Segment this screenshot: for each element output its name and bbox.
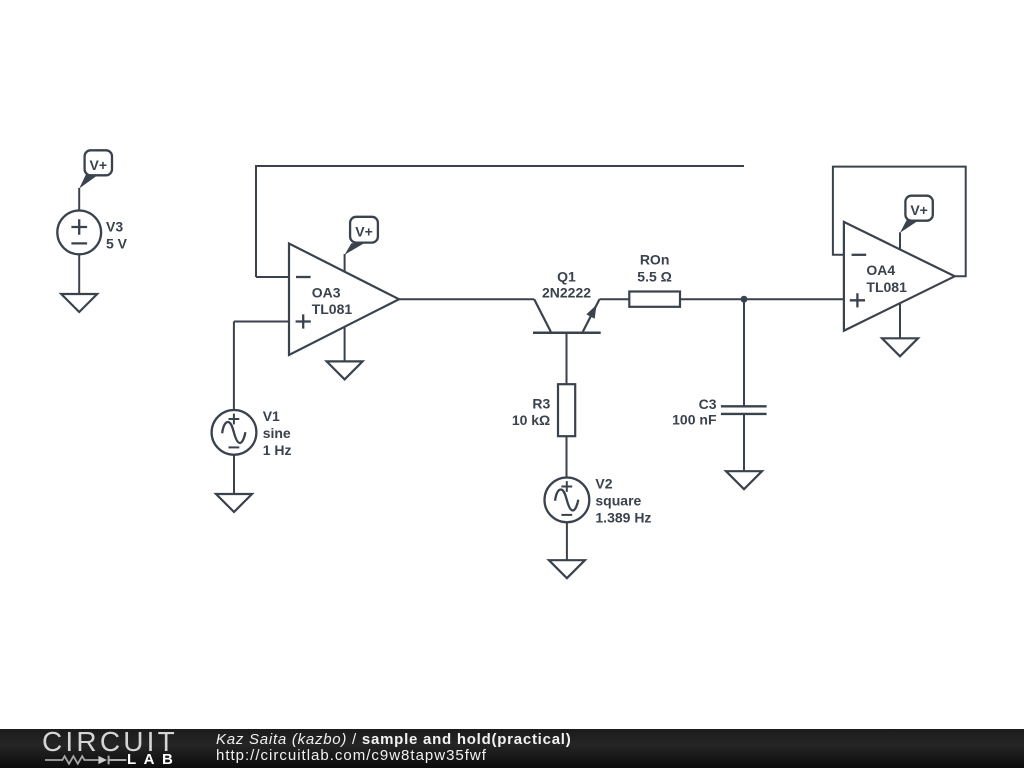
op-amp OA3	[289, 244, 399, 356]
svg-text:TL081: TL081	[312, 301, 353, 317]
svg-text:V3: V3	[106, 219, 123, 235]
net flag V+ (top left, on V3)	[79, 150, 112, 188]
CircuitLab logo	[42, 726, 178, 758]
ground (OA4)	[882, 338, 918, 356]
resistor R3	[558, 384, 575, 436]
svg-text:V+: V+	[90, 157, 108, 173]
svg-text:Q1: Q1	[557, 268, 576, 284]
ground (V2)	[549, 560, 585, 578]
source V1 (sine)	[212, 410, 257, 455]
wire OA3 ground pin	[344, 327, 346, 362]
svg-text:100 nF: 100 nF	[672, 411, 717, 427]
ground (V1)	[216, 494, 252, 512]
wire into OA3 inverting input	[256, 276, 289, 278]
footer bar	[0, 729, 1024, 768]
wire OA4 V+ pin	[899, 232, 901, 250]
svg-text:R3: R3	[532, 395, 550, 411]
svg-text:2N2222: 2N2222	[542, 285, 591, 301]
wire Q1 base to R3	[566, 333, 568, 384]
logo diode	[98, 756, 107, 764]
svg-text:OA3: OA3	[312, 284, 341, 300]
transistor Q1 2N2222	[533, 268, 601, 333]
logo resistor zigzag	[45, 756, 98, 764]
footer text	[216, 731, 571, 748]
wire node to OA4	[744, 298, 844, 300]
net flag V+ (OA4)	[900, 196, 933, 233]
wire feedback OA3 (top loop)	[256, 166, 744, 277]
wire flag to V3	[78, 188, 80, 211]
ground (V3)	[61, 294, 97, 312]
svg-text:sine: sine	[263, 425, 291, 441]
wire V1 to ground	[233, 455, 235, 494]
svg-text:V1: V1	[263, 408, 280, 424]
source V2 (square)	[545, 478, 590, 523]
op-amp OA4	[844, 222, 955, 331]
ground (OA3)	[327, 361, 363, 379]
wire OA4 ground pin	[899, 303, 901, 338]
ground (C3)	[726, 471, 762, 489]
svg-text:V2: V2	[595, 476, 612, 492]
resistor ROn	[629, 292, 680, 307]
wire feedback OA4	[833, 167, 966, 277]
voltage source V3	[57, 211, 101, 255]
wire V3 to ground	[78, 254, 80, 294]
wire OA3 V+ pin	[344, 254, 346, 273]
wire R3 to V2	[566, 436, 568, 477]
svg-text:1 Hz: 1 Hz	[263, 442, 292, 458]
node junction dot	[741, 296, 748, 303]
svg-text:OA4: OA4	[866, 262, 895, 278]
svg-text:TL081: TL081	[866, 279, 907, 295]
svg-text:V+: V+	[910, 202, 928, 218]
wire C3 to ground	[743, 414, 745, 471]
wire node down to C3	[743, 299, 745, 406]
svg-text:5.5 Ω: 5.5 Ω	[637, 269, 672, 285]
svg-text:square: square	[595, 493, 641, 509]
wire ROn to node	[680, 298, 744, 300]
wire Q1 emitter to ROn	[600, 298, 630, 300]
svg-text:5 V: 5 V	[106, 236, 128, 252]
wire V1 to OA3	[233, 322, 235, 411]
svg-text:10 kΩ: 10 kΩ	[512, 412, 550, 428]
net flag V+ (OA3)	[345, 217, 378, 255]
wire V2 to ground	[566, 522, 568, 560]
svg-text:C3: C3	[699, 396, 717, 412]
wire OA3 output to Q1 collector	[399, 298, 534, 300]
wire OA3 non-inverting input	[234, 321, 289, 323]
capacitor C3	[721, 406, 767, 414]
svg-text:V+: V+	[355, 224, 373, 240]
svg-text:1.389 Hz: 1.389 Hz	[595, 510, 651, 526]
svg-text:ROn: ROn	[640, 251, 670, 267]
